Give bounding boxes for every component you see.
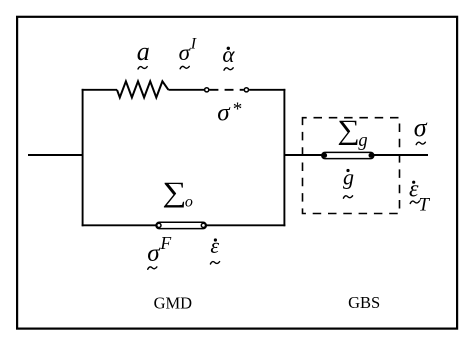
svg-text:σ: σ bbox=[179, 40, 192, 65]
svg-text:GBS: GBS bbox=[348, 293, 380, 312]
svg-text:∑: ∑ bbox=[337, 116, 359, 146]
svg-text:T: T bbox=[418, 195, 430, 216]
svg-text:I: I bbox=[190, 36, 197, 53]
svg-text:∑: ∑ bbox=[162, 176, 186, 208]
svg-text:F: F bbox=[159, 233, 171, 253]
svg-text:a: a bbox=[137, 37, 150, 66]
svg-text:o: o bbox=[185, 194, 193, 211]
svg-text:*: * bbox=[232, 99, 242, 120]
svg-text:g: g bbox=[343, 164, 354, 189]
svg-text:GMD: GMD bbox=[154, 294, 193, 313]
svg-text:g: g bbox=[358, 131, 367, 151]
svg-text:α: α bbox=[222, 42, 235, 67]
svg-text:σ: σ bbox=[147, 240, 161, 267]
svg-text:ε: ε bbox=[210, 233, 219, 258]
svg-text:σ: σ bbox=[217, 100, 231, 127]
svg-text:σ: σ bbox=[414, 113, 428, 142]
